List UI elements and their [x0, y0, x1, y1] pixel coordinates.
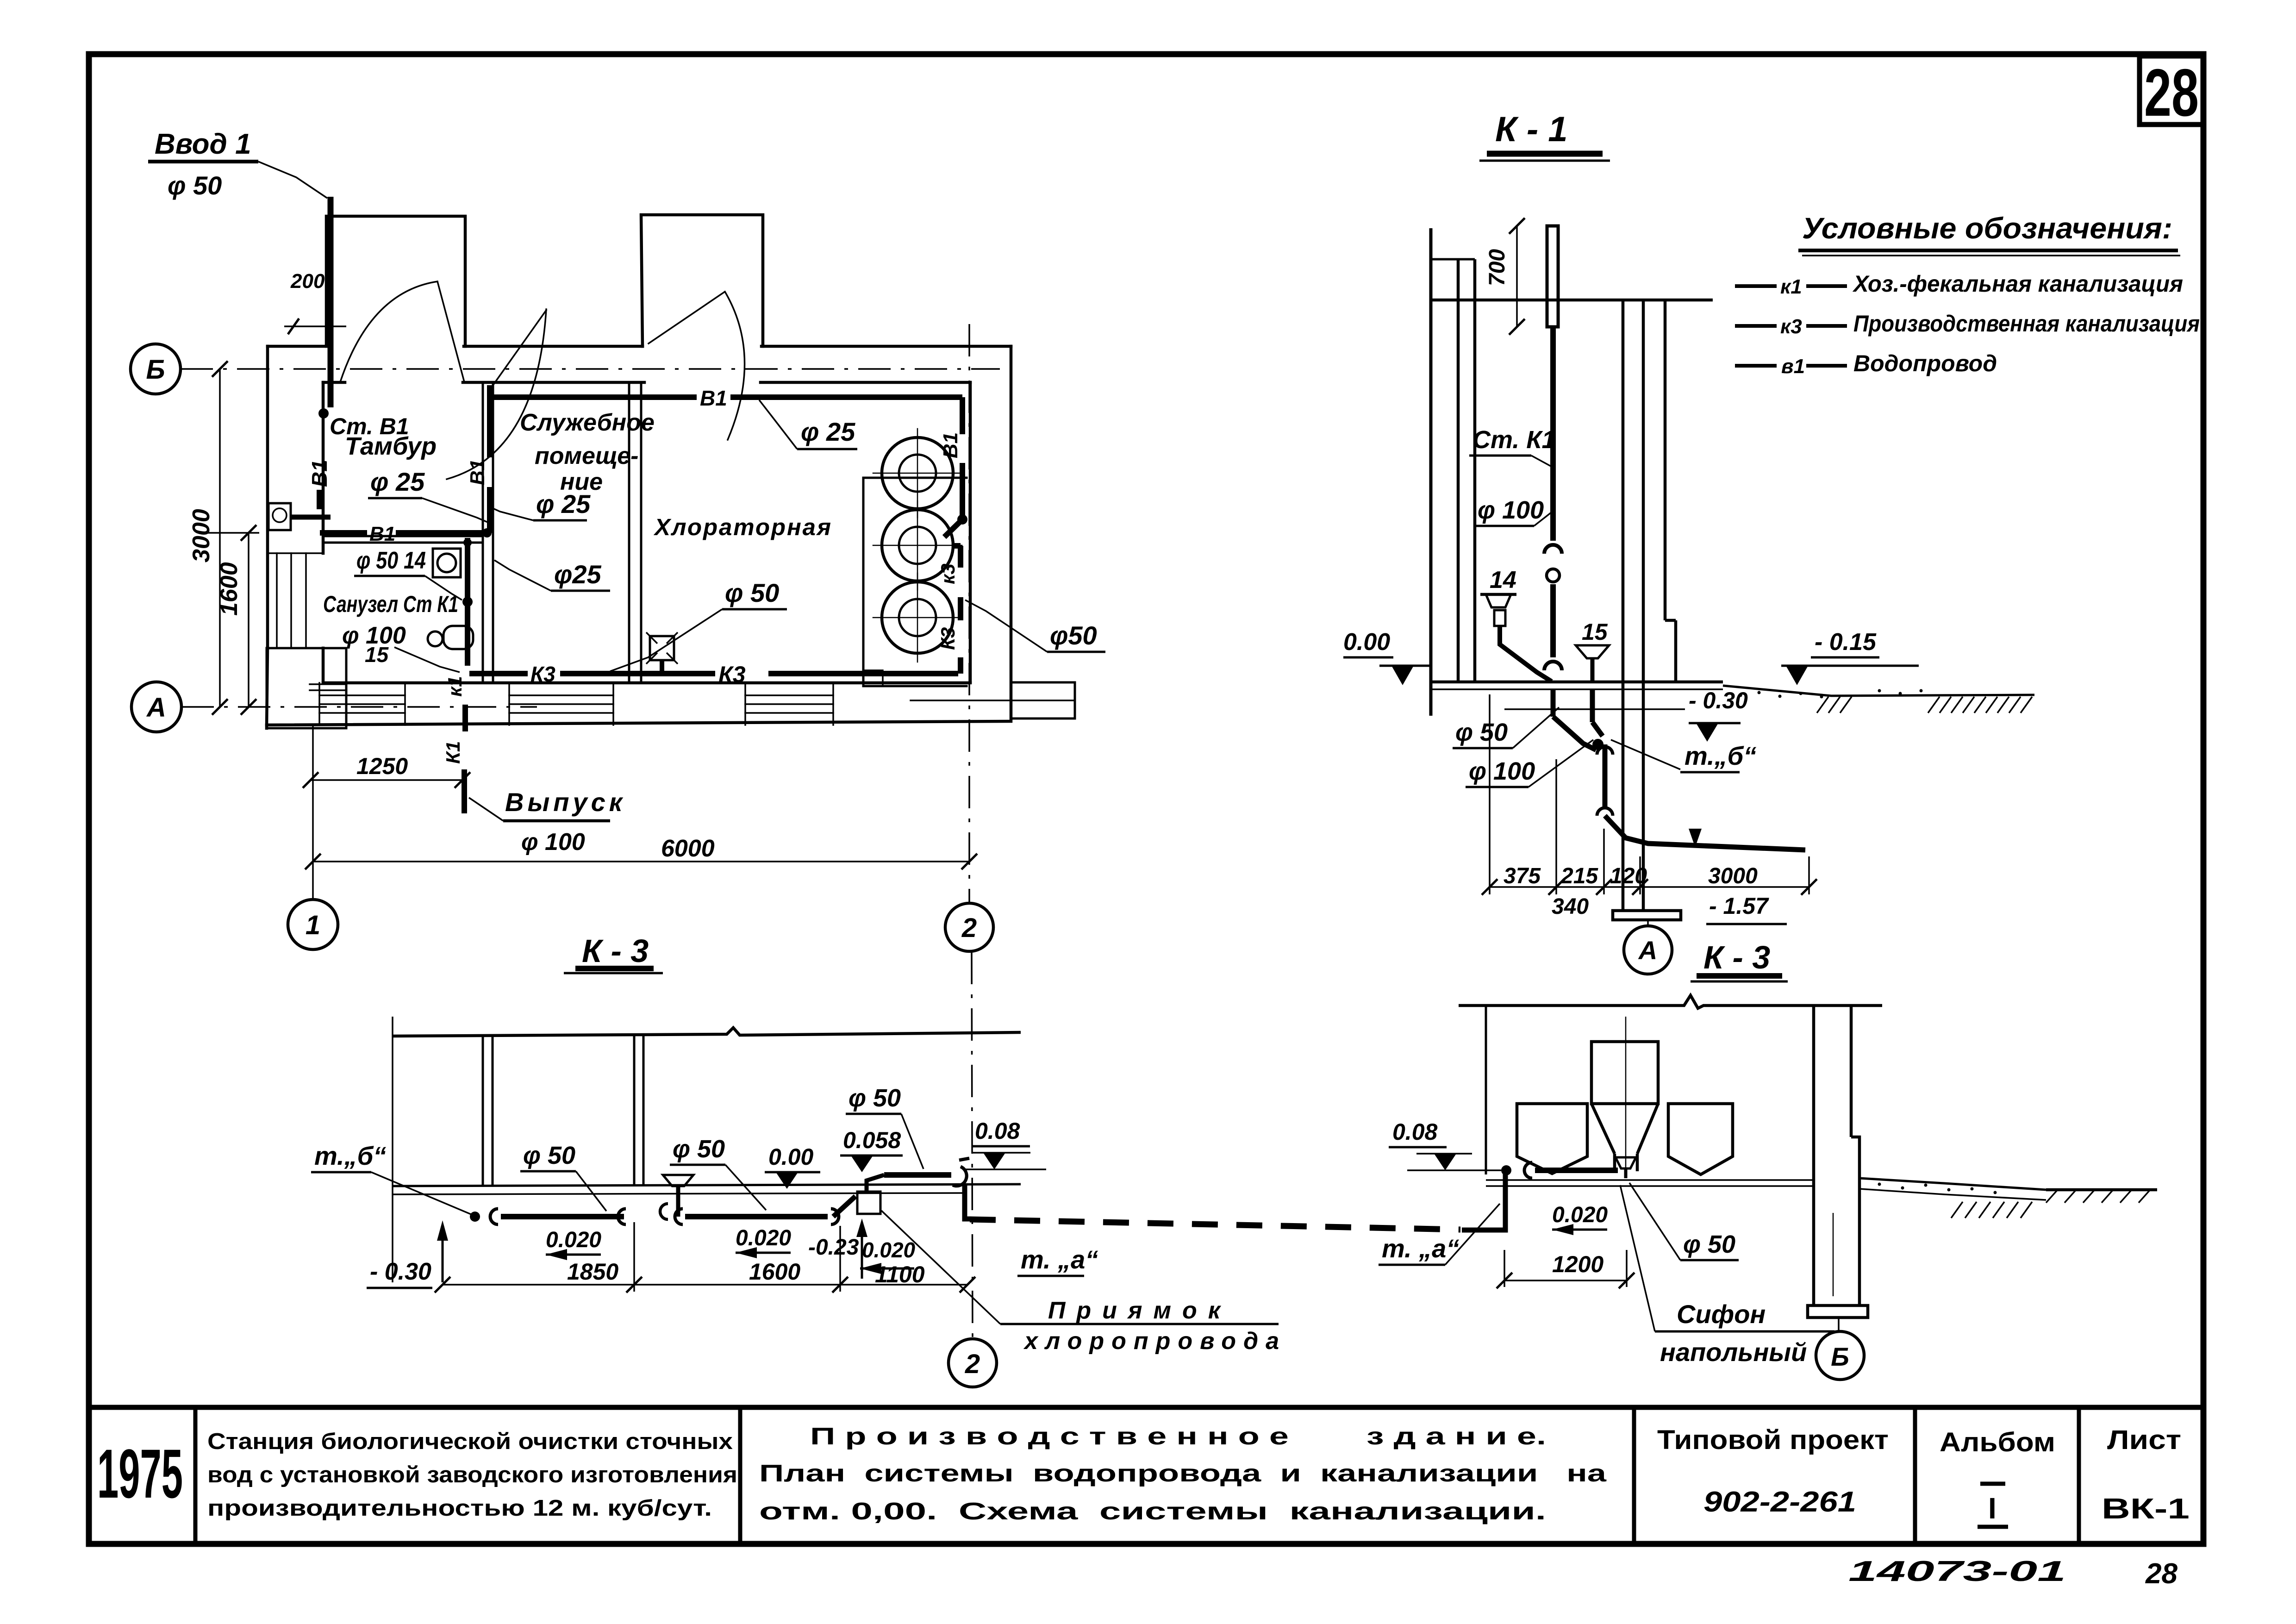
svg-text:т. „а“: т. „а“	[1021, 1245, 1098, 1274]
vertical dim 3000	[219, 369, 221, 707]
svg-text:902-2-261: 902-2-261	[1703, 1486, 1856, 1518]
svg-text:т.„б“: т.„б“	[314, 1141, 386, 1170]
right bin	[1668, 1104, 1733, 1174]
svg-text:I: I	[1988, 1492, 1997, 1525]
partition office/chlorine room	[628, 382, 630, 683]
door arc office	[493, 310, 546, 385]
jog up and pit	[833, 1196, 855, 1217]
svg-text:В1: В1	[307, 460, 331, 487]
svg-text:К3: К3	[530, 662, 555, 686]
legend	[1735, 212, 2200, 378]
svg-text:в1: в1	[1781, 355, 1805, 378]
svg-text:120: 120	[1610, 864, 1647, 888]
svg-text:1975: 1975	[97, 1435, 183, 1512]
svg-text:14: 14	[1490, 567, 1516, 593]
svg-text:φ25: φ25	[554, 560, 602, 589]
svg-text:28: 28	[2145, 1558, 2177, 1590]
svg-text:φ 50: φ 50	[849, 1084, 901, 1112]
wall column 1	[482, 1035, 484, 1186]
axis 2 line down + circle	[972, 952, 973, 1338]
svg-text:напольный: напольный	[1660, 1337, 1807, 1367]
svg-text:215: 215	[1560, 864, 1598, 888]
bottom windows triple lines	[319, 683, 833, 725]
funnel on pipe	[663, 1175, 693, 1186]
svg-text:φ 50: φ 50	[523, 1142, 575, 1169]
axis 1	[288, 899, 338, 949]
svg-text:φ 50: φ 50	[1455, 718, 1508, 746]
axis B	[131, 344, 181, 394]
wall top outer	[268, 345, 329, 348]
svg-text:А: А	[1638, 936, 1657, 965]
legend row K1	[1735, 284, 1777, 288]
svg-text:-0.23: -0.23	[808, 1235, 859, 1260]
svg-text:0.020: 0.020	[546, 1228, 601, 1252]
svg-text:К3: К3	[937, 627, 959, 650]
left wall	[1429, 228, 1433, 716]
left edge line	[392, 1017, 393, 1282]
hopper	[1591, 1042, 1658, 1104]
porch bottom-left	[267, 648, 346, 728]
pipe	[1501, 1165, 1511, 1175]
svg-text:1850: 1850	[567, 1259, 618, 1285]
left window triple lines	[276, 553, 278, 648]
V1 right riser	[960, 397, 965, 434]
wall bottom outer	[267, 721, 1011, 725]
svg-text:План системы водопровода и: План системы водопровода и канализации н…	[759, 1460, 1607, 1487]
svg-text:0.00: 0.00	[1343, 629, 1390, 656]
left bin	[1517, 1104, 1587, 1174]
plan axes and dimensions	[131, 324, 1000, 951]
K3 riser to tanks	[958, 657, 963, 674]
axis B circle	[1816, 1331, 1864, 1380]
pipe chase walls	[1622, 300, 1625, 910]
svg-text:1100: 1100	[875, 1262, 925, 1287]
sheet number box 28	[2140, 55, 2203, 130]
svg-text:- 1.57: - 1.57	[1709, 893, 1769, 919]
vent stack above roof	[1547, 226, 1558, 327]
chlorine pipe dashed	[970, 1219, 1460, 1230]
chlorine tank 1	[873, 429, 962, 518]
svg-text:1250: 1250	[356, 753, 408, 779]
svg-text:Служебное: Служебное	[520, 409, 655, 436]
svg-text:- 0.30: - 0.30	[1689, 687, 1748, 713]
svg-text:- 0.30: - 0.30	[370, 1258, 431, 1285]
svg-text:Типовой проект: Типовой проект	[1657, 1425, 1889, 1455]
svg-text:375: 375	[1504, 864, 1541, 888]
svg-text:Станция биологической очистк: Станция биологической очистки сточных	[207, 1429, 733, 1454]
toilet	[428, 631, 443, 646]
svg-text:П р о и з в о д с т в е н н о: П р о и з в о д с т в е н н о е з д а н …	[810, 1423, 1546, 1450]
axis 2	[945, 903, 993, 951]
legend row V1	[1735, 364, 1777, 368]
V1 inlet riser	[328, 197, 334, 407]
svg-text:15: 15	[365, 643, 389, 667]
pipe base flange	[1613, 911, 1681, 920]
bottom dims	[1490, 694, 1809, 894]
svg-text:вод с установкой заводского: вод с установкой заводского изготовления	[207, 1462, 737, 1487]
svg-text:0.020: 0.020	[862, 1238, 916, 1262]
wall bottom inner	[323, 681, 970, 685]
svg-text:Б: Б	[1831, 1342, 1849, 1371]
svg-text:помеще-: помеще-	[535, 443, 638, 469]
ceiling with break	[1459, 995, 1882, 1008]
svg-text:А: А	[146, 693, 166, 723]
K1 riser	[465, 538, 470, 666]
V1 top run	[493, 394, 697, 400]
svg-text:Хлораторная: Хлораторная	[653, 514, 835, 540]
roof shaft box 1	[326, 216, 465, 346]
svg-text:φ 100: φ 100	[1478, 496, 1544, 524]
svg-text:Производственная канализация: Производственная канализация	[1853, 311, 2200, 337]
dim 700	[1516, 226, 1518, 327]
wall column 2	[633, 1034, 636, 1186]
svg-text:φ 50 14: φ 50 14	[356, 547, 426, 574]
title block	[89, 1407, 2203, 1590]
ground line	[1723, 686, 2034, 696]
svg-text:φ 50: φ 50	[673, 1135, 725, 1163]
K3 main run	[469, 671, 528, 676]
ceiling	[1431, 299, 1713, 302]
V1 partition riser	[487, 385, 493, 457]
roof shaft box 2	[641, 215, 763, 346]
svg-text:φ50: φ50	[1050, 621, 1097, 650]
svg-text:- 0.15: - 0.15	[1815, 629, 1877, 656]
svg-text:ние: ние	[560, 468, 603, 495]
section K-1 title	[1479, 110, 1610, 161]
svg-text:φ 100: φ 100	[1469, 757, 1535, 785]
svg-text:В1: В1	[369, 523, 395, 545]
door arc tambour	[437, 281, 464, 382]
floor	[1486, 1179, 1814, 1181]
pipe run 1	[470, 1212, 480, 1222]
svg-text:Тамбур: Тамбур	[345, 432, 437, 460]
porch slab bottom-right	[911, 700, 1075, 701]
svg-text:Хоз.-фекальная канализация: Хоз.-фекальная канализация	[1852, 271, 2183, 297]
legend row K3	[1735, 324, 1777, 328]
svg-text:т. „а“: т. „а“	[1382, 1234, 1459, 1263]
svg-text:φ 25: φ 25	[801, 417, 855, 446]
svg-text:К - 3: К - 3	[1703, 939, 1770, 975]
svg-text:15: 15	[1582, 619, 1608, 645]
floor drain	[650, 636, 674, 660]
svg-text:Водопровод: Водопровод	[1853, 350, 1997, 376]
vertical dim 1600	[248, 533, 250, 707]
svg-text:К - 1: К - 1	[1495, 110, 1568, 149]
left wall	[1485, 1006, 1487, 1174]
svg-text:К1: К1	[442, 741, 464, 764]
svg-text:В1: В1	[939, 432, 962, 458]
svg-text:производительностью 12 м. ку: производительностью 12 м. куб/сут.	[207, 1496, 712, 1521]
svg-text:В1: В1	[700, 386, 727, 410]
chlorine tank 2	[873, 501, 962, 590]
svg-text:1600: 1600	[216, 562, 243, 616]
svg-text:к3: к3	[937, 563, 959, 584]
axis A circle	[1624, 926, 1672, 974]
svg-text:1200: 1200	[1552, 1251, 1603, 1277]
svg-text:28: 28	[2144, 55, 2199, 130]
svg-text:Условные обозначения:: Условные обозначения:	[1802, 212, 2172, 245]
svg-text:2: 2	[965, 1349, 980, 1379]
svg-text:φ 50: φ 50	[168, 171, 222, 200]
svg-text:К3: К3	[718, 662, 746, 687]
svg-text:Сифон: Сифон	[1677, 1299, 1766, 1329]
stack St.K1	[1550, 327, 1556, 541]
dim line	[443, 1284, 967, 1286]
floor lines	[393, 1184, 1021, 1186]
svg-text:Ввод 1: Ввод 1	[155, 128, 251, 160]
wall left inner	[322, 382, 325, 553]
svg-text:0.020: 0.020	[1552, 1203, 1608, 1227]
svg-text:3000: 3000	[188, 509, 215, 562]
floor lines	[1431, 681, 1723, 684]
svg-text:к3: к3	[1780, 315, 1802, 338]
svg-text:ВК-1: ВК-1	[2102, 1493, 2190, 1525]
inner wall double line	[1457, 259, 1460, 682]
svg-text:340: 340	[1552, 894, 1589, 919]
svg-text:φ 50: φ 50	[1683, 1230, 1735, 1258]
svg-text:Ст. К1: Ст. К1	[1472, 426, 1556, 454]
center line	[1625, 1017, 1627, 1176]
svg-text:0.08: 0.08	[975, 1118, 1020, 1144]
right wall with step	[1664, 300, 1667, 620]
wall right outer	[1010, 346, 1013, 718]
svg-text:0.020: 0.020	[736, 1226, 791, 1250]
svg-text:хлоропровода: хлоропровода	[1023, 1328, 1286, 1355]
svg-text:отм. 0,00. Схема системы ка: отм. 0,00. Схема системы канализации.	[759, 1498, 1546, 1525]
svg-text:Альбом: Альбом	[1940, 1427, 2055, 1457]
svg-text:1600: 1600	[749, 1259, 800, 1285]
svg-text:0.058: 0.058	[843, 1127, 901, 1153]
svg-text:2: 2	[961, 913, 977, 943]
door arc chlorine room	[649, 292, 725, 344]
V1 horizontal run	[320, 530, 367, 536]
svg-text:Б: Б	[146, 355, 165, 385]
svg-text:к1: к1	[444, 676, 466, 697]
axis A	[131, 682, 181, 732]
svg-text:К - 3: К - 3	[582, 933, 649, 969]
svg-text:0.08: 0.08	[1392, 1119, 1438, 1145]
below floor piping	[1551, 689, 1556, 717]
tank enclosure	[863, 478, 967, 686]
svg-text:6000: 6000	[661, 835, 715, 862]
svg-text:1: 1	[306, 910, 320, 940]
svg-text:φ 100: φ 100	[521, 829, 585, 856]
chlorine tank 3	[873, 573, 962, 662]
svg-text:Приямок: Приямок	[1048, 1297, 1231, 1324]
svg-text:В1: В1	[466, 459, 489, 485]
sink	[433, 549, 461, 577]
svg-text:φ 50: φ 50	[725, 578, 779, 607]
wall right inner	[969, 382, 972, 682]
wall tap fixture	[268, 503, 291, 530]
svg-text:200: 200	[290, 270, 325, 293]
partition tambour/office	[482, 382, 484, 683]
svg-text:Лист: Лист	[2107, 1425, 2181, 1455]
svg-text:Выпуск: Выпуск	[505, 787, 626, 817]
wall left outer	[266, 346, 269, 648]
column	[1812, 1006, 1816, 1305]
svg-text:14073-01: 14073-01	[1848, 1555, 2066, 1587]
svg-text:т.„б“: т.„б“	[1685, 741, 1756, 770]
plan pipes	[148, 128, 1105, 813]
pipe run 2	[675, 1209, 683, 1224]
svg-text:0.00: 0.00	[768, 1144, 814, 1170]
svg-text:700: 700	[1485, 249, 1510, 286]
svg-text:3000: 3000	[1708, 864, 1758, 888]
svg-text:φ 25: φ 25	[370, 467, 425, 496]
ceiling	[393, 1028, 1021, 1036]
partition tambour/wc	[323, 535, 483, 537]
svg-text:Санузел Ст К1: Санузел Ст К1	[323, 591, 458, 617]
pipe to T	[884, 1172, 951, 1178]
wall top inner	[323, 381, 345, 384]
ground right	[1859, 1178, 2046, 1190]
svg-text:к1: к1	[1780, 275, 1802, 298]
